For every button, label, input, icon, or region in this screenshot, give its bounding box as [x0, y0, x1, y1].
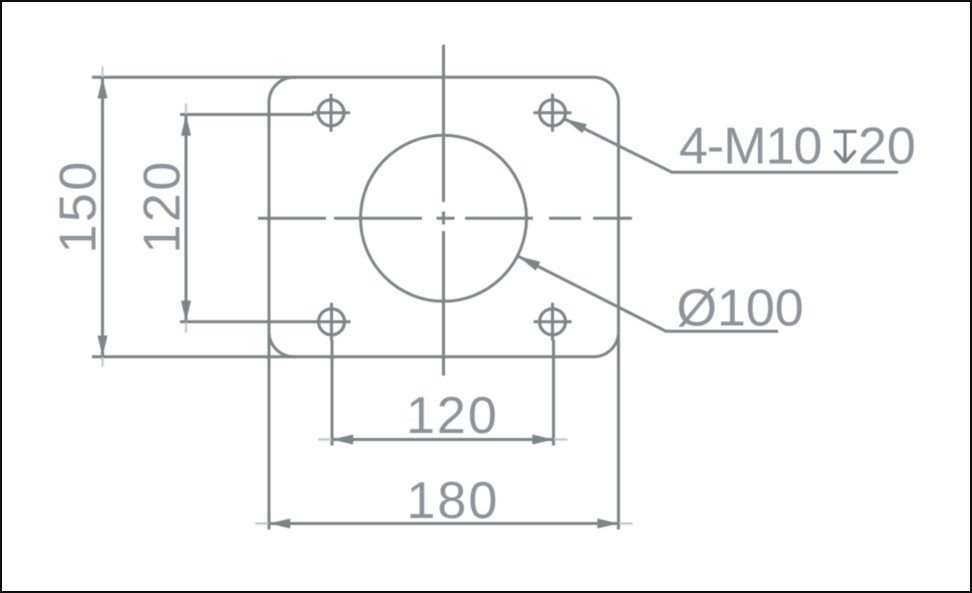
- svg-text:4-M10: 4-M10: [679, 117, 821, 175]
- vertical centerline: [442, 45, 445, 376]
- hole bottom-left crosshair: [313, 303, 351, 341]
- leader arrow at bore circle: [518, 256, 541, 271]
- dim 120 horizontal overshoot ticks: [318, 438, 568, 440]
- dim 150 extension lines: [92, 77, 296, 356]
- dim 180 arrow right: [597, 519, 618, 529]
- svg-text:20: 20: [858, 117, 916, 175]
- dim 180 arrow left: [269, 519, 290, 529]
- dim 120 horizontal dimension line: [332, 438, 554, 441]
- svg-text:150: 150: [50, 159, 108, 253]
- leader line to D100 note: [518, 256, 779, 331]
- dim 120 vertical arrow up: [181, 115, 191, 136]
- dim 150 dimension line: [101, 77, 104, 356]
- leader arrow at top-right hole: [564, 119, 587, 134]
- dim 120 vertical dimension line: [185, 115, 188, 322]
- svg-text:180: 180: [407, 472, 500, 530]
- horizontal centerline: [258, 217, 632, 220]
- hole top-right crosshair: [534, 94, 572, 132]
- hole bottom-right crosshair: [534, 303, 572, 341]
- dim 180 extension lines: [269, 333, 619, 530]
- hole top-left M10: [318, 100, 344, 126]
- dim 120 vertical overshoot ticks: [185, 104, 187, 333]
- dim 120 horizontal arrow right: [532, 435, 553, 445]
- hole bottom-left M10: [319, 309, 345, 335]
- dim 120 vertical extension lines: [180, 115, 314, 322]
- svg-text:Ø100: Ø100: [677, 280, 804, 338]
- dim 120 horizontal extension lines: [332, 340, 554, 446]
- dim 180 dimension line: [269, 522, 619, 525]
- dim 150 arrow down: [98, 336, 108, 357]
- dim 150 overshoot ticks: [101, 67, 103, 367]
- dim 150 arrow up: [98, 77, 108, 98]
- plate outline (rounded-corner flange body 180x150): [269, 77, 619, 356]
- hole bottom-right M10: [540, 309, 566, 335]
- hole top-right M10: [540, 100, 566, 126]
- depth symbol of 4-M10 note: [834, 132, 857, 163]
- leader line to 4-M10 note: [564, 119, 898, 173]
- center bore circle D100: [361, 135, 527, 301]
- svg-text:120: 120: [406, 387, 499, 445]
- dim 120 vertical arrow down: [181, 301, 191, 322]
- dim 120 horizontal arrow left: [332, 435, 353, 445]
- svg-text:120: 120: [134, 159, 192, 253]
- hole top-left crosshair: [312, 94, 350, 132]
- dim 180 overshoot ticks: [255, 522, 633, 524]
